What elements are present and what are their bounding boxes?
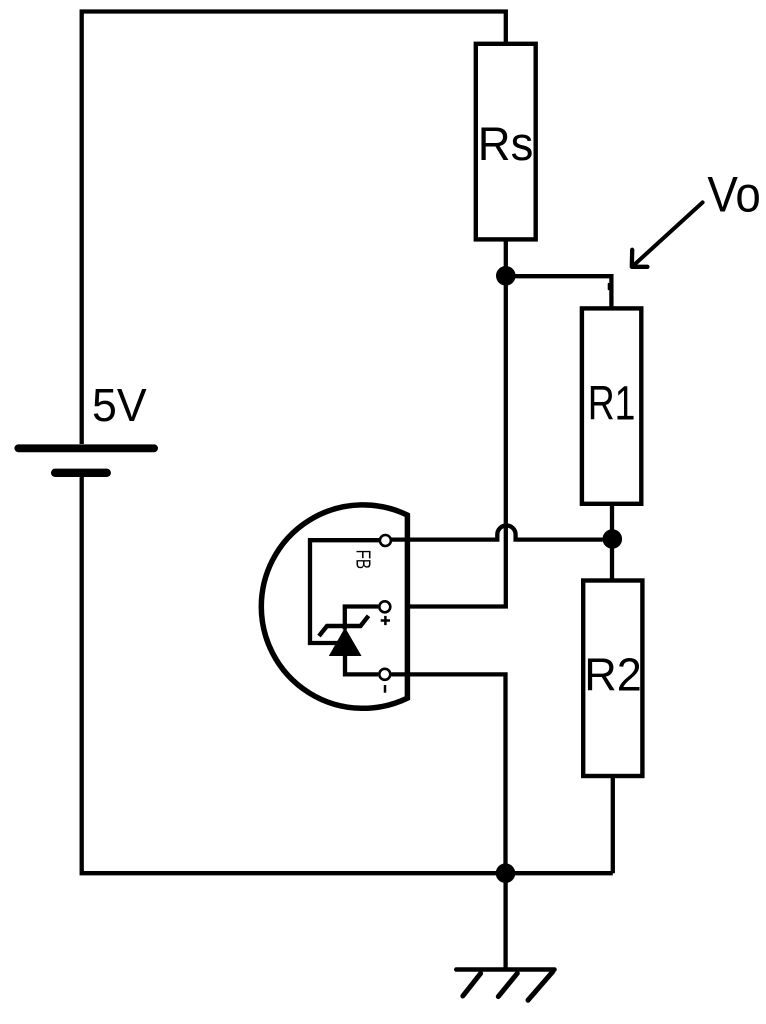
wire R1 bottom to node B — [610, 504, 614, 539]
svg-text:FB: FB — [352, 550, 375, 570]
ground — [456, 970, 554, 1001]
arrow pointing to Vo corner — [632, 202, 703, 266]
wire from battery + up and across to Rs — [82, 12, 506, 445]
svg-text:Vo: Vo — [707, 167, 760, 222]
resistor R2 — [583, 581, 642, 777]
wire - pin to bottom node — [391, 674, 505, 873]
pin FB — [380, 535, 391, 546]
node B — [603, 529, 623, 549]
pin + — [379, 601, 390, 612]
wire from battery - down to bottom rail — [82, 473, 613, 873]
label - — [384, 685, 387, 693]
wire main vertical node A down to + pin rail — [391, 276, 505, 607]
wire Rs bottom to node A — [504, 239, 508, 276]
svg-text:Rs: Rs — [478, 117, 534, 170]
zener D1 cathode bar — [319, 616, 369, 636]
wire FB inner box — [310, 540, 379, 643]
stray tick at Vo corner — [608, 284, 611, 289]
wire node A to R1 top — [506, 276, 612, 308]
pin - — [379, 669, 390, 680]
wire FB pin to node B with hop over vertical wire — [391, 525, 603, 539]
node GND — [496, 863, 516, 883]
wire zener anode to - pin — [345, 655, 378, 674]
regulator U1 package outline — [261, 505, 407, 708]
label + — [381, 616, 390, 625]
resistor Rs — [476, 44, 536, 240]
svg-text:R2: R2 — [584, 648, 642, 701]
battery B1 — [18, 448, 154, 473]
node A — [496, 266, 516, 286]
wire R2 bottom to bottom rail — [611, 776, 615, 873]
wire bottom node to ground — [503, 873, 507, 969]
wire node B to R2 top — [610, 539, 614, 581]
wire + pin to zener cathode — [345, 607, 378, 630]
svg-text:5V: 5V — [92, 379, 147, 431]
zener D1 anode triangle — [331, 630, 360, 656]
svg-text:R1: R1 — [588, 377, 636, 431]
resistor R1 — [582, 308, 641, 503]
